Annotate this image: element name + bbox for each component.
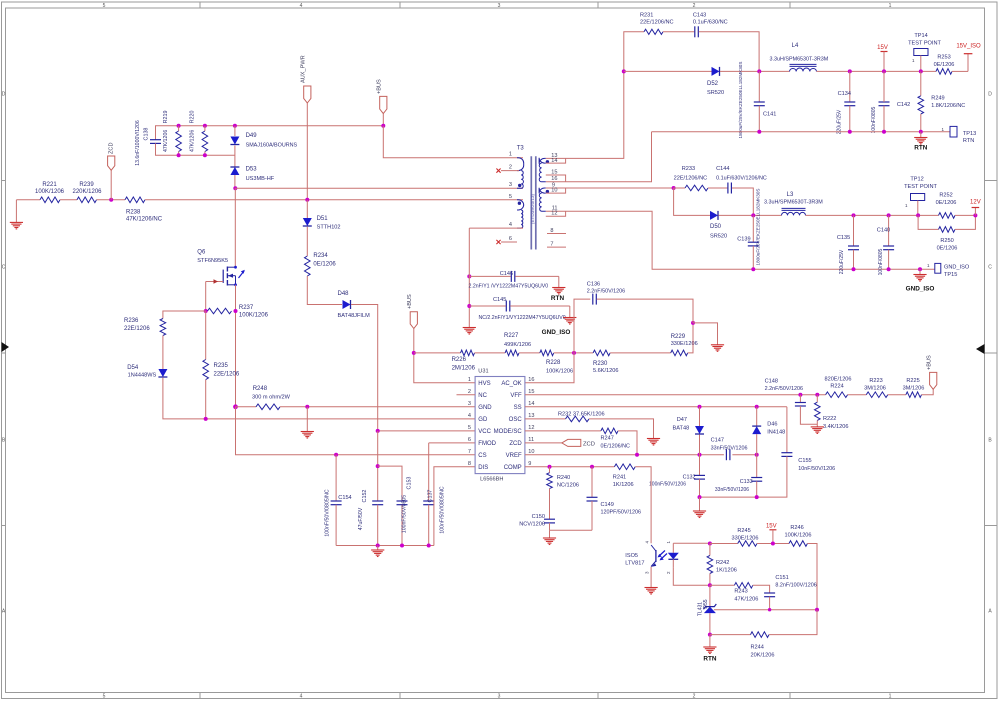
ground GND_ISO mid — [542, 306, 577, 336]
capacitor C139 — [737, 189, 760, 270]
capacitor C151 — [753, 575, 817, 610]
capacitor C152 — [358, 431, 383, 546]
svg-text:NCV/1206: NCV/1206 — [519, 522, 545, 528]
svg-text:R223: R223 — [869, 378, 882, 384]
resistor R240 — [547, 467, 579, 489]
svg-text:(ETD39/20/13): (ETD39/20/13) — [530, 193, 535, 224]
optocoupler ISO5 LTV817 — [625, 541, 671, 575]
wire GND row a — [236, 406, 257, 408]
svg-text:D50: D50 — [710, 224, 722, 230]
svg-text:10: 10 — [551, 188, 557, 194]
svg-text:8: 8 — [550, 228, 553, 234]
svg-text:R246: R246 — [790, 525, 803, 531]
capacitor C155 — [700, 407, 836, 497]
node snubber left — [622, 69, 626, 73]
svg-text:D52: D52 — [707, 81, 719, 87]
resistor R245 — [731, 528, 758, 546]
power 12V — [970, 200, 981, 218]
wire R231-C143 — [663, 31, 694, 33]
wire R245-15V — [757, 543, 789, 545]
resistor R236 — [124, 318, 166, 336]
svg-text:20K/1206: 20K/1206 — [751, 652, 775, 658]
svg-text:15: 15 — [528, 389, 534, 395]
capacitor C149 — [587, 467, 641, 531]
svg-text:100nF/50V/1206: 100nF/50V/1206 — [649, 482, 686, 488]
svg-text:47K/1206: 47K/1206 — [190, 130, 196, 152]
node C149 COMP — [590, 465, 594, 469]
wire bus corner to T3 pin1 — [383, 126, 523, 158]
svg-text:C149: C149 — [601, 502, 614, 508]
svg-text:C154: C154 — [338, 495, 351, 501]
svg-text:3: 3 — [498, 694, 501, 700]
svg-text:STTH102: STTH102 — [317, 225, 341, 231]
svg-text:L3: L3 — [787, 192, 794, 198]
resistor R232 — [558, 412, 605, 422]
svg-text:R249: R249 — [931, 96, 944, 102]
capacitor C154 — [325, 455, 352, 546]
node source GND row — [233, 404, 238, 409]
capacitor C145 — [469, 297, 570, 321]
wire C138 bottom — [156, 143, 235, 155]
svg-text:TEST POINT: TEST POINT — [904, 184, 937, 190]
svg-text:220K/1206: 220K/1206 — [72, 189, 102, 195]
svg-text:R250: R250 — [940, 238, 953, 244]
wire R243 row — [710, 584, 735, 586]
node C142 bottom — [882, 130, 886, 134]
wire R233 branch a — [674, 187, 685, 189]
svg-text:TP12: TP12 — [910, 177, 923, 183]
svg-text:R240: R240 — [557, 475, 570, 481]
svg-text:C136: C136 — [587, 282, 600, 288]
wire D50 branch — [674, 188, 711, 215]
wire pin11 line — [546, 211, 935, 269]
svg-text:C135: C135 — [837, 235, 850, 241]
svg-text:NC/2.2nF/Y1/VY1222M47Y5UQ6UV0: NC/2.2nF/Y1/VY1222M47Y5UQ6UV0 — [479, 315, 566, 321]
node R219 top — [177, 124, 181, 128]
wire pin13 line — [546, 71, 624, 158]
wire C150 C149 join — [550, 529, 593, 531]
svg-text:AUX_PWR: AUX_PWR — [301, 55, 307, 83]
svg-text:10nF/50V/1206: 10nF/50V/1206 — [798, 466, 835, 472]
svg-text:C138: C138 — [144, 128, 150, 141]
wire D49-D53 — [234, 146, 236, 167]
svg-text:TP15: TP15 — [944, 272, 957, 278]
svg-text:3M/1206: 3M/1206 — [864, 386, 886, 392]
svg-text:0E/1206: 0E/1206 — [313, 262, 336, 268]
node TL431 anode — [708, 633, 712, 637]
resistor R241 — [613, 464, 635, 488]
svg-text:SR520: SR520 — [710, 234, 727, 240]
svg-text:R236: R236 — [124, 318, 139, 324]
resistor R228 — [540, 350, 573, 374]
wire ref row — [714, 609, 817, 611]
inductor L3 — [764, 192, 823, 215]
svg-text:8.2nF/100V/1206: 8.2nF/100V/1206 — [775, 583, 816, 589]
node C141 bottom — [757, 130, 761, 134]
port +BUS mid — [407, 294, 417, 329]
svg-text:C: C — [988, 265, 992, 271]
svg-text:330E/1206: 330E/1206 — [671, 341, 698, 347]
wire row to T3 pin3 — [235, 187, 523, 189]
svg-text:4: 4 — [509, 222, 512, 228]
wire COMP row — [525, 466, 615, 468]
node C140 top — [887, 213, 891, 217]
node TP14 rail — [919, 69, 923, 73]
resistor R225 — [903, 378, 925, 398]
port ZCD right — [525, 439, 595, 447]
svg-text:US3MB-HF: US3MB-HF — [246, 176, 275, 182]
svg-text:22E/1206: 22E/1206 — [214, 372, 240, 378]
node rail C137 — [427, 544, 431, 548]
svg-text:CS: CS — [478, 453, 486, 459]
svg-text:15V: 15V — [766, 524, 777, 530]
node R247 VREF — [635, 453, 639, 457]
wire rail e — [610, 352, 671, 354]
diode D51 — [303, 200, 341, 231]
node TP12 rail — [916, 213, 920, 217]
svg-text:15V: 15V — [877, 45, 888, 51]
node ZCD junction — [109, 198, 113, 202]
svg-text:R241: R241 — [613, 474, 626, 480]
wire R229 up — [688, 323, 693, 353]
wire cap rail — [336, 545, 434, 547]
svg-text:GND_ISO: GND_ISO — [944, 265, 970, 271]
svg-text:R228: R228 — [546, 360, 561, 366]
capacitor C132 — [649, 455, 705, 497]
svg-text:100nF/0805: 100nF/0805 — [878, 248, 884, 275]
svg-text:+BUS: +BUS — [377, 79, 383, 94]
port +BUS top — [377, 79, 387, 114]
svg-text:R230: R230 — [593, 361, 608, 367]
resistor R224 — [824, 377, 851, 398]
resistor R243 — [734, 583, 758, 603]
svg-text:100K/1206: 100K/1206 — [239, 312, 269, 318]
node C136 rail — [572, 351, 576, 355]
svg-text:R233: R233 — [682, 166, 695, 172]
svg-text:0E/1206/NC: 0E/1206/NC — [601, 443, 630, 449]
svg-text:R242: R242 — [716, 560, 729, 566]
node C134 bottom — [848, 130, 852, 134]
wire +BUS mid vert — [414, 329, 475, 383]
wire rail to D52 — [624, 70, 712, 72]
capacitor C141 — [738, 62, 777, 139]
test point TP15 — [927, 263, 970, 278]
wire R252 right — [955, 214, 975, 216]
test point TP13 — [941, 126, 976, 144]
svg-text:16: 16 — [528, 377, 534, 383]
diode D48 — [338, 291, 371, 319]
svg-text:220uF/25V: 220uF/25V — [837, 109, 843, 134]
svg-text:47K/1206/NC: 47K/1206/NC — [126, 216, 163, 222]
svg-text:1: 1 — [889, 694, 892, 700]
node rail C153 — [400, 544, 404, 548]
node C151 ref — [768, 608, 771, 611]
svg-text:4: 4 — [300, 3, 303, 9]
resistor R230 — [593, 350, 619, 374]
svg-text:12: 12 — [528, 425, 534, 431]
wire VCC row — [378, 430, 475, 432]
resistor R233 — [674, 166, 708, 191]
node GND_ISO C135 — [852, 267, 856, 271]
svg-text:3: 3 — [468, 401, 471, 407]
svg-text:IN4148: IN4148 — [767, 429, 785, 435]
node C141 top — [757, 69, 761, 73]
svg-text:D53: D53 — [246, 167, 258, 173]
svg-text:3M/1206: 3M/1206 — [903, 386, 925, 392]
power 15V_ISO — [952, 44, 981, 72]
svg-text:5: 5 — [103, 694, 106, 700]
resistor R237 — [208, 305, 269, 319]
resistor R250 — [918, 215, 975, 251]
wire rail c — [519, 352, 540, 354]
svg-text:13: 13 — [528, 413, 534, 419]
capacitor C148 — [765, 378, 818, 424]
svg-text:D48: D48 — [338, 291, 350, 297]
wire VFF row — [525, 394, 826, 396]
wire R234 to D48 — [307, 276, 342, 305]
svg-text:33nF/50V/1206: 33nF/50V/1206 — [715, 487, 749, 493]
svg-text:R229: R229 — [671, 334, 686, 340]
svg-text:1.8K/1206/NC: 1.8K/1206/NC — [931, 103, 965, 109]
wire GND row b — [280, 406, 475, 408]
wire MODE row — [525, 430, 601, 432]
node C139 top — [751, 213, 755, 217]
svg-text:SR520: SR520 — [707, 90, 724, 96]
svg-text:2.2nF/50V/1206: 2.2nF/50V/1206 — [587, 289, 625, 295]
svg-text:7: 7 — [468, 449, 471, 455]
svg-text:RTN: RTN — [703, 656, 717, 663]
wire pin9 line — [546, 187, 674, 189]
wire R242R245 — [710, 543, 738, 545]
wire pin14 stub — [546, 158, 566, 163]
node GND_ISO C140 — [887, 267, 891, 271]
node +BUS bus — [381, 124, 385, 128]
node rail C133 — [755, 495, 759, 499]
svg-text:3.4K/1206: 3.4K/1206 — [823, 424, 849, 430]
wire R236-D54 — [162, 336, 164, 370]
node TL431 top — [708, 583, 712, 587]
svg-text:R222: R222 — [823, 416, 836, 422]
ground — [693, 323, 724, 351]
svg-text:120PF/50V/1206: 120PF/50V/1206 — [601, 510, 641, 516]
resistor R235 — [203, 311, 240, 419]
node R249 bottom — [919, 130, 923, 134]
capacitor C144 — [716, 166, 767, 194]
svg-text:C143: C143 — [693, 13, 706, 19]
svg-text:C150: C150 — [532, 514, 545, 520]
port ZCD left — [108, 143, 115, 200]
svg-text:R238: R238 — [126, 209, 141, 215]
node ref R246 — [815, 608, 819, 612]
svg-text:TP13: TP13 — [963, 131, 976, 137]
resistor R227 — [505, 350, 519, 356]
node AUX main row — [305, 198, 309, 202]
wire VFF c — [888, 394, 906, 396]
svg-text:SMAJ160A/BOURNS: SMAJ160A/BOURNS — [246, 143, 298, 149]
node gate node — [204, 309, 208, 313]
diode LED ISO5 — [668, 543, 679, 567]
wire CS sense — [236, 407, 476, 455]
node GND ground tap — [305, 405, 309, 409]
node R220 top — [203, 124, 207, 128]
svg-text:HVS: HVS — [478, 381, 490, 387]
inductor L4 — [770, 43, 829, 71]
resistor R248 — [252, 386, 291, 410]
ground — [693, 497, 706, 517]
wire D53-node — [234, 175, 236, 188]
svg-text:+BUS: +BUS — [927, 355, 933, 370]
svg-text:C134: C134 — [838, 91, 851, 97]
wire pin16 line — [546, 132, 652, 182]
wire rail d — [554, 352, 593, 354]
svg-text:14: 14 — [551, 158, 557, 164]
svg-text:C153: C153 — [407, 477, 413, 490]
svg-text:100nF/50V/0805/NC: 100nF/50V/0805/NC — [440, 486, 446, 534]
op-amp U31 L6566BH controller — [468, 369, 535, 483]
wire drain vertical — [234, 188, 236, 267]
node C154 CS — [334, 453, 338, 457]
svg-text:10: 10 — [528, 449, 534, 455]
test point TP14 — [908, 33, 941, 71]
svg-text:R243: R243 — [734, 589, 747, 595]
node C132 VREF — [698, 453, 702, 457]
svg-text:VCC: VCC — [478, 429, 491, 435]
wire AUX_PWR vertical — [306, 103, 308, 200]
resistor R229 — [671, 334, 698, 356]
diode D52 — [707, 67, 724, 96]
wire pin4 vertical — [468, 228, 470, 327]
svg-text:12V: 12V — [970, 200, 981, 206]
svg-text:R235: R235 — [214, 363, 229, 369]
svg-text:R226: R226 — [452, 357, 467, 363]
capacitor C137 — [423, 443, 445, 546]
svg-text:3: 3 — [509, 182, 512, 188]
capacitor C133 — [715, 455, 762, 497]
svg-text:C152: C152 — [362, 490, 368, 503]
svg-text:1K/1206: 1K/1206 — [613, 482, 634, 488]
ground GND_ISO — [906, 269, 935, 292]
svg-text:D: D — [988, 92, 992, 98]
svg-text:C151: C151 — [775, 575, 788, 581]
svg-text:22E/1206/NC: 22E/1206/NC — [640, 19, 674, 25]
svg-text:C147: C147 — [711, 438, 724, 444]
resistor R247 — [601, 428, 630, 449]
svg-text:L4: L4 — [792, 43, 799, 49]
wire LED down — [673, 567, 710, 585]
svg-text:100nF/50V/0805/NC: 100nF/50V/0805/NC — [325, 489, 331, 537]
svg-text:ISO5: ISO5 — [625, 553, 638, 559]
wire L3 to 12V — [806, 214, 939, 216]
resistor R226 — [452, 350, 476, 371]
wire LED top row — [673, 542, 710, 544]
diode D47 — [673, 407, 705, 455]
wire VREF row — [525, 454, 724, 456]
svg-text:100nF/50V/0805: 100nF/50V/0805 — [402, 495, 408, 533]
node source R237 — [234, 309, 238, 313]
wire AC_OK link — [525, 353, 574, 383]
transformer T3 — [517, 146, 549, 250]
svg-text:3.3uH/SPM6530T-3R3M: 3.3uH/SPM6530T-3R3M — [770, 57, 829, 63]
svg-text:R219: R219 — [163, 111, 169, 124]
ground — [543, 530, 556, 544]
svg-text:D51: D51 — [317, 216, 329, 222]
diode D46 — [752, 407, 785, 455]
svg-text:5: 5 — [509, 194, 512, 200]
port +BUS right — [922, 355, 937, 395]
diode D50 — [710, 211, 727, 240]
diode D53 — [230, 167, 274, 182]
resistor R249 — [918, 71, 965, 131]
svg-text:AC_OK: AC_OK — [501, 381, 521, 387]
svg-text:15V_ISO: 15V_ISO — [956, 44, 981, 50]
wire D54 to GD row — [163, 378, 475, 419]
svg-text:7: 7 — [550, 242, 553, 248]
ground — [463, 328, 476, 335]
svg-text:6: 6 — [509, 236, 512, 242]
svg-text:R252: R252 — [939, 193, 952, 199]
svg-text:1: 1 — [889, 3, 892, 9]
svg-text:2: 2 — [693, 694, 696, 700]
capacitor C138 — [135, 120, 161, 166]
svg-text:820E/1206: 820E/1206 — [824, 377, 851, 383]
resistor R231 — [640, 13, 674, 35]
wire pin10 stub — [546, 188, 566, 193]
svg-text:MODE/SC: MODE/SC — [494, 429, 523, 435]
diode D54 — [127, 365, 167, 379]
node R220 bottom — [203, 153, 207, 157]
capacitor C143 — [693, 13, 728, 38]
wire R244 up — [769, 610, 817, 635]
svg-text:R231: R231 — [640, 13, 653, 19]
ground — [301, 407, 314, 438]
svg-text:4: 4 — [468, 413, 471, 419]
svg-text:C145: C145 — [493, 297, 506, 303]
svg-text:47K/1206: 47K/1206 — [163, 130, 169, 152]
resistor R220 — [190, 111, 208, 156]
pin 7 stub — [547, 246, 566, 248]
svg-text:R234: R234 — [313, 253, 328, 259]
transistor D55 TL431 — [697, 585, 716, 634]
wire D52 to L4 — [720, 70, 790, 72]
wire R231 branch — [624, 32, 644, 72]
node R219 bottom — [177, 153, 181, 157]
resistor R238 — [125, 197, 163, 222]
resistor R222 — [815, 395, 849, 430]
node GND_ISO tap — [918, 267, 922, 271]
svg-text:R232 37.65K/1206: R232 37.65K/1206 — [558, 412, 605, 418]
svg-text:0E/1206: 0E/1206 — [937, 246, 958, 252]
resistor R221 — [35, 182, 65, 203]
wire pin15 stub — [546, 175, 566, 182]
svg-text:TEST POINT: TEST POINT — [908, 41, 941, 47]
wire R247 down — [618, 431, 637, 455]
svg-text:300 m ohm/2W: 300 m ohm/2W — [252, 394, 291, 400]
node D46 VREF — [755, 453, 759, 457]
node pin4 C146 — [467, 274, 471, 278]
svg-text:U31: U31 — [478, 369, 488, 375]
svg-text:T3: T3 — [517, 146, 525, 152]
pin 6 stub — [496, 240, 517, 244]
node R229 C136 — [691, 321, 695, 325]
svg-text:C144: C144 — [716, 166, 729, 172]
svg-text:Q6: Q6 — [197, 250, 206, 256]
resistor R253 — [934, 55, 955, 75]
port AUX_PWR — [301, 55, 311, 103]
svg-text:STF6N95K5: STF6N95K5 — [197, 258, 228, 264]
resistor R239 — [72, 182, 102, 203]
svg-text:4: 4 — [300, 694, 303, 700]
svg-text:C148: C148 — [765, 378, 778, 384]
